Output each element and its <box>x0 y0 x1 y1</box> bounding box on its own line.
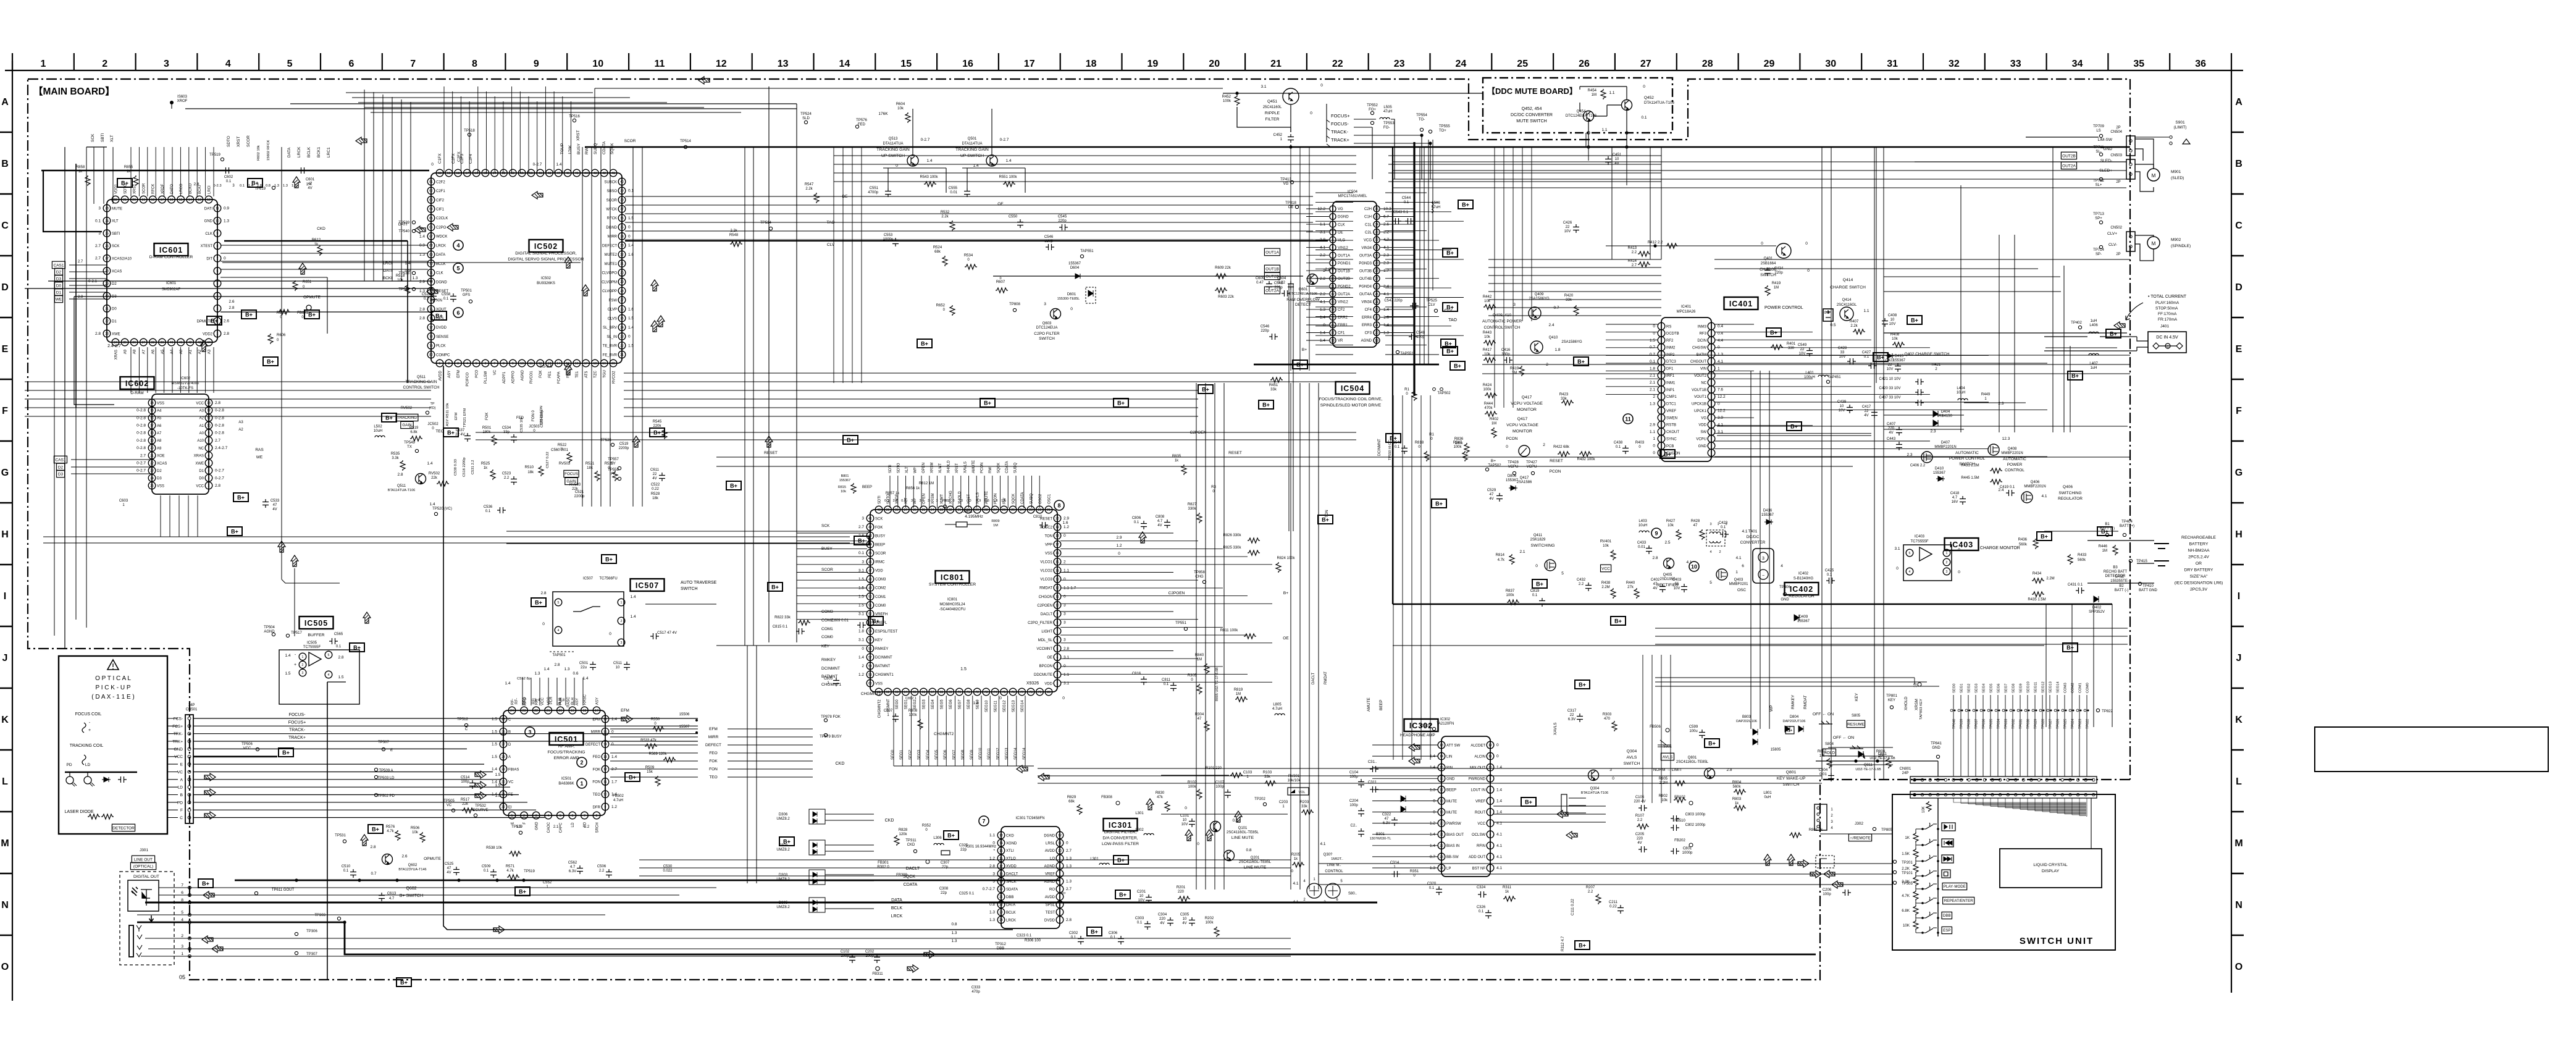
svg-text:C808: C808 <box>1156 515 1165 519</box>
system controller IC801 pin 24 <box>1018 506 1026 513</box>
svg-text:R413: R413 <box>1628 246 1637 250</box>
svg-text:FB311: FB311 <box>872 972 883 976</box>
svg-text:C1L: C1L <box>1365 223 1372 227</box>
svg-text:D601: D601 <box>1067 293 1076 297</box>
svg-text:CLVOPO: CLVOPO <box>602 272 617 276</box>
svg-text:LINE M..: LINE M.. <box>1327 864 1341 867</box>
svg-text:C815 0.1: C815 0.1 <box>773 625 788 629</box>
svg-text:2.8: 2.8 <box>1325 267 1330 272</box>
resistor <box>88 814 100 819</box>
svg-text:2.2k: 2.2k <box>941 215 949 219</box>
DAC IC301 pin 12 <box>1056 831 1064 839</box>
svg-text:1k: 1k <box>1505 890 1509 894</box>
svg-text:0-2.7: 0-2.7 <box>1000 138 1009 142</box>
svg-text:B2: B2 <box>2119 584 2124 588</box>
svg-text:MONITOR: MONITOR <box>1512 429 1532 434</box>
svg-text:EFM: EFM <box>457 370 461 378</box>
pin 2 <box>1943 558 1950 566</box>
svg-text:TP834: TP834 <box>1997 719 2001 729</box>
svg-text:B+: B+ <box>400 980 408 986</box>
svg-text:1.4: 1.4 <box>419 234 425 238</box>
svg-text:30: 30 <box>1825 59 1836 69</box>
D-RAM controller IC601 pin 20 <box>130 196 138 203</box>
wire <box>1380 293 1414 295</box>
svg-text:47uH: 47uH <box>1383 110 1392 114</box>
svg-text:CLVOPM: CLVOPM <box>602 280 617 284</box>
svg-text:1.3: 1.3 <box>1718 353 1723 357</box>
svg-text:D0: D0 <box>199 477 204 481</box>
svg-text:21: 21 <box>999 896 1003 899</box>
svg-text:DVDD: DVDD <box>1044 919 1055 922</box>
svg-text:DIGITAL FILTER,: DIGITAL FILTER, <box>1104 830 1136 835</box>
svg-text:B+: B+ <box>1614 618 1622 625</box>
svg-text:TP524: TP524 <box>800 112 812 116</box>
svg-text:R835: R835 <box>1172 455 1181 458</box>
svg-text:R827: R827 <box>1188 503 1197 507</box>
svg-text:1: 1 <box>621 601 623 605</box>
svg-text:10: 10 <box>1840 405 1844 408</box>
svg-text:B+: B+ <box>1117 400 1125 406</box>
svg-text:330k: 330k <box>1188 507 1196 511</box>
svg-text:43: 43 <box>594 172 597 175</box>
D-RAM controller IC601 pin 28 <box>103 267 111 275</box>
svg-text:1.4: 1.4 <box>427 461 432 466</box>
warning triangle <box>107 660 119 670</box>
svg-text:LS: LS <box>2096 129 2100 133</box>
svg-text:B+: B+ <box>447 430 455 436</box>
svg-text:CLV+: CLV+ <box>2107 232 2117 236</box>
wire <box>1372 744 1438 746</box>
svg-text:T401: T401 <box>1748 529 1758 534</box>
ruler row tick left <box>0 502 12 504</box>
svg-text:3: 3 <box>528 730 531 736</box>
svg-text:SLD: SLD <box>802 117 810 120</box>
svg-text:B+: B+ <box>1454 363 1461 369</box>
DSP IC502 pin 36 <box>618 214 626 222</box>
svg-text:18: 18 <box>1440 800 1443 804</box>
svg-text:CF3: CF3 <box>1365 332 1372 335</box>
svg-text:OE: OE <box>1283 636 1289 641</box>
svg-text:R1: R1 <box>1404 388 1409 392</box>
svg-text:R532: R532 <box>941 211 950 214</box>
svg-text:VDD: VDD <box>1044 682 1052 686</box>
DAC IC301 pin 16 <box>997 855 1005 862</box>
svg-text:C514: C514 <box>461 776 470 780</box>
D-RAM controller IC601 pin 2 <box>214 318 221 325</box>
svg-text:R550: R550 <box>651 718 660 721</box>
svg-text:24: 24 <box>1375 300 1378 304</box>
svg-text:9: 9 <box>217 232 219 236</box>
system controller IC801 pin 38 <box>893 506 900 513</box>
DSP IC502 pin 41 <box>610 169 617 177</box>
D-RAM controller IC601 pin 24 <box>103 217 111 225</box>
system controller IC801 pin 31 <box>956 506 963 513</box>
svg-text:0: 0 <box>999 277 1001 280</box>
svg-text:SEG10: SEG10 <box>2027 681 2031 693</box>
svg-text:XWE: XWE <box>112 332 120 336</box>
svg-text:11: 11 <box>207 416 210 420</box>
svg-text:VDD2: VDD2 <box>203 332 213 336</box>
svg-text:ROUT: ROUT <box>1475 811 1485 815</box>
DSP IC502 pin 49 <box>537 169 544 177</box>
svg-text:4.1: 4.1 <box>1735 556 1741 560</box>
ruler column tick <box>1553 53 1554 70</box>
svg-text:ASY R511 10k: ASY R511 10k <box>446 403 450 426</box>
svg-text:LRCK: LRCK <box>891 914 903 919</box>
wire <box>71 473 152 474</box>
svg-text:0.1: 0.1 <box>424 297 429 301</box>
svg-text:30: 30 <box>1375 254 1378 258</box>
svg-text:FF:170mA: FF:170mA <box>2158 312 2177 316</box>
svg-text:0.7: 0.7 <box>1650 353 1655 357</box>
wire <box>193 718 698 719</box>
svg-text:FON: FON <box>709 767 718 772</box>
svg-text:1k: 1k <box>1175 459 1179 463</box>
svg-text:0-2.8: 0-2.8 <box>215 408 224 413</box>
svg-text:3: 3 <box>1513 303 1516 307</box>
svg-text:SPINDLE/SLED MOTOR DRIVE: SPINDLE/SLED MOTOR DRIVE <box>1320 403 1382 408</box>
wire <box>1306 301 1329 302</box>
DSP IC502 pin 15 <box>564 360 571 367</box>
svg-text:A1: A1 <box>199 424 204 428</box>
DAC IC301 body <box>1001 827 1060 928</box>
svg-text:20: 20 <box>999 888 1003 891</box>
svg-text:GND: GND <box>1781 598 1789 602</box>
svg-text:0.8: 0.8 <box>266 184 271 188</box>
svg-text:B3: B3 <box>2113 566 2118 570</box>
svg-text:0.7: 0.7 <box>371 872 376 876</box>
op-amp IC601 label box <box>154 243 188 256</box>
ruler row tick right <box>2231 502 2244 504</box>
svg-text:18: 18 <box>594 362 597 366</box>
svg-text:0.1: 0.1 <box>1071 936 1076 940</box>
system controller IC801 pin 20 <box>1054 515 1061 522</box>
svg-text:D1: D1 <box>199 469 204 473</box>
svg-text:EFM: EFM <box>592 718 600 721</box>
CN501 pin <box>188 763 191 766</box>
svg-text:TC75555F: TC75555F <box>303 646 321 649</box>
svg-text:0.1: 0.1 <box>1404 201 1409 204</box>
svg-text:DC/DC: DC/DC <box>1747 535 1760 539</box>
svg-text:EI: EI <box>508 806 512 809</box>
svg-text:0: 0 <box>999 696 1002 700</box>
svg-text:C605: C605 <box>1256 277 1265 280</box>
wire <box>167 725 178 726</box>
svg-text:LRCI: LRCI <box>208 185 211 194</box>
svg-text:20: 20 <box>1209 59 1220 69</box>
svg-text:2.8: 2.8 <box>215 401 220 405</box>
svg-text:XLT: XLT <box>110 135 114 142</box>
DAC IC301 pin 18 <box>997 870 1005 878</box>
svg-text:0: 0 <box>1535 564 1538 568</box>
svg-text:10k: 10k <box>412 831 419 835</box>
svg-text:C325 0.1: C325 0.1 <box>959 892 975 896</box>
svg-text:7.6: 7.6 <box>1718 388 1723 392</box>
junction <box>522 878 525 881</box>
wire <box>193 772 493 773</box>
svg-text:FOCUS/TRACKING COIL DRIVE,: FOCUS/TRACKING COIL DRIVE, <box>1319 397 1383 402</box>
IC507 label box <box>631 579 665 591</box>
svg-text:0.9: 0.9 <box>419 243 425 248</box>
ruler column tick <box>1861 53 1862 70</box>
DSP IC502 pin 6 <box>482 360 489 367</box>
svg-text:10: 10 <box>207 424 211 428</box>
svg-text:TP410: TP410 <box>2142 584 2154 588</box>
IC504 pin 28 <box>1374 267 1380 274</box>
svg-text:RFO: RFO <box>524 697 527 705</box>
IC504 pin 8 <box>1330 260 1336 266</box>
svg-text:FOCUS: FOCUS <box>564 472 578 476</box>
svg-text:5: 5 <box>1710 581 1712 585</box>
svg-text:1.4: 1.4 <box>630 615 636 619</box>
headphone amp IC302 pin 12 <box>1487 741 1494 749</box>
svg-text:1.3: 1.3 <box>412 276 417 280</box>
svg-text:1M62T..: 1M62T.. <box>1331 857 1343 861</box>
svg-text:TP504: TP504 <box>264 626 275 629</box>
svg-text:FOCUS+: FOCUS+ <box>1331 113 1350 119</box>
svg-text:IC801: IC801 <box>941 573 964 582</box>
svg-text:2.6: 2.6 <box>401 854 407 859</box>
capacitor C501 <box>590 662 596 670</box>
svg-text:RV502: RV502 <box>401 406 413 410</box>
DSP IC502 pin 67 <box>427 233 435 240</box>
svg-text:Q402 CHARGE SWITCH: Q402 CHARGE SWITCH <box>1905 352 1950 356</box>
svg-text:Q403: Q403 <box>1734 578 1743 582</box>
svg-text:38: 38 <box>895 508 899 512</box>
DSP IC502 pin 8 <box>500 360 508 367</box>
svg-text:76: 76 <box>1011 691 1015 694</box>
svg-text:B+: B+ <box>1491 459 1496 463</box>
svg-text:2.8: 2.8 <box>229 306 234 310</box>
svg-text:24: 24 <box>105 219 109 223</box>
svg-text:1.4: 1.4 <box>492 767 497 772</box>
svg-text:0: 0 <box>628 225 631 230</box>
svg-text:1.3: 1.3 <box>292 184 296 188</box>
svg-text:2: 2 <box>580 760 583 766</box>
svg-text:C2L: C2L <box>1365 231 1372 235</box>
svg-text:12: 12 <box>1058 834 1062 838</box>
svg-text:FBIAS: FBIAS <box>508 768 519 772</box>
svg-text:C802 1000p: C802 1000p <box>1685 823 1706 827</box>
svg-text:C31..: C31.. <box>1368 760 1377 764</box>
svg-text:FO+: FO+ <box>1369 108 1376 112</box>
DSP IC502 pin 60 <box>436 169 443 177</box>
ruler column tick <box>813 53 814 70</box>
IC504 pin 2 <box>1330 214 1336 220</box>
svg-text:1.4: 1.4 <box>1320 339 1325 343</box>
svg-text:R403: R403 <box>1635 441 1645 445</box>
svg-text:2SC4116GL-TE85L: 2SC4116GL-TE85L <box>1239 860 1272 864</box>
D-RAM controller IC601 pin 42 <box>187 339 194 346</box>
DSP IC502 pin 63 <box>427 196 435 204</box>
ruler column tick <box>690 53 691 70</box>
DSP IC502 pin 72 <box>427 278 435 285</box>
svg-text:2SB1664: 2SB1664 <box>1761 262 1776 266</box>
D-RAM IC602 pin 11 <box>205 414 212 422</box>
svg-text:UPCK1B: UPCK1B <box>1692 403 1706 406</box>
svg-text:SL-: SL- <box>2096 150 2101 154</box>
svg-text:4.7uH: 4.7uH <box>613 799 623 802</box>
svg-text:X301 16.9344MHz: X301 16.9344MHz <box>965 845 996 849</box>
system controller IC801 pin 61 <box>875 688 883 696</box>
DSP IC502 pin 7 <box>491 360 498 367</box>
svg-text:1.5: 1.5 <box>495 783 500 788</box>
IC504 pin 34 <box>1374 221 1380 227</box>
svg-text:R449: R449 <box>1981 393 1991 397</box>
headphone amp IC302 pin 10 <box>1487 763 1494 771</box>
svg-text:Q511: Q511 <box>417 376 426 379</box>
svg-text:3: 3 <box>936 499 938 503</box>
power control IC401 pin <box>1658 372 1665 379</box>
wire <box>193 786 510 788</box>
junction <box>495 878 498 881</box>
wire <box>167 779 178 780</box>
svg-text:17: 17 <box>584 362 588 366</box>
net label OUT1B <box>1264 265 1280 272</box>
svg-text:56: 56 <box>474 172 478 175</box>
svg-text:12: 12 <box>1331 293 1335 297</box>
svg-text:R436: R436 <box>2018 538 2028 542</box>
DSP IC502 pin 37 <box>618 205 626 212</box>
svg-text:A: A <box>2235 97 2242 107</box>
svg-text:MMBF2201N: MMBF2201N <box>1934 445 1956 449</box>
svg-text:15: 15 <box>179 198 183 202</box>
svg-text:A: A <box>508 755 511 759</box>
J301 pin 7 <box>188 886 191 890</box>
svg-text:TRACKING COIL: TRACKING COIL <box>70 744 104 748</box>
svg-text:27: 27 <box>620 299 624 303</box>
svg-text:C560 0.01: C560 0.01 <box>551 448 568 452</box>
svg-text:1.8: 1.8 <box>1554 348 1560 352</box>
system controller IC801 pin 73 <box>983 688 990 696</box>
svg-text:C205: C205 <box>1635 833 1645 836</box>
svg-text:RMDAT: RMDAT <box>1324 671 1328 684</box>
svg-text:17: 17 <box>595 709 598 713</box>
DSP IC502 pin 61 <box>427 178 435 185</box>
svg-text:D1: D1 <box>56 290 62 295</box>
svg-text:220: 220 <box>1888 427 1895 431</box>
svg-text:55: 55 <box>484 172 487 175</box>
B+ supply <box>531 598 546 607</box>
headphone amp IC302 pin 19 <box>1438 809 1445 816</box>
svg-text:DCINMNT: DCINMNT <box>1378 439 1382 456</box>
svg-text:1.6: 1.6 <box>1001 499 1006 503</box>
D-RAM controller IC601 pin 19 <box>140 196 148 203</box>
wire <box>167 809 178 810</box>
svg-text:1.3: 1.3 <box>283 184 288 188</box>
wire <box>65 772 137 773</box>
svg-text:XROF: XROF <box>177 99 188 103</box>
ruler column tick <box>1984 53 1986 70</box>
svg-text:12: 12 <box>207 409 211 413</box>
svg-text:BCLK: BCLK <box>436 263 446 266</box>
svg-text:44: 44 <box>584 172 588 175</box>
net label OUT2B <box>1264 272 1280 280</box>
svg-text:3: 3 <box>181 944 183 949</box>
svg-text:2SD1950: 2SD1950 <box>1659 578 1676 581</box>
svg-text:41: 41 <box>611 172 615 175</box>
DSP IC502 pin 2 <box>445 360 453 367</box>
svg-text:TP307: TP307 <box>306 953 317 956</box>
D-RAM IC602 pin 23 <box>148 467 156 474</box>
svg-text:FOCUS COIL: FOCUS COIL <box>75 712 102 717</box>
svg-text:DC IN 4.5V: DC IN 4.5V <box>2156 335 2178 340</box>
svg-text:D3: D3 <box>157 477 162 481</box>
svg-text:1.7: 1.7 <box>1383 269 1389 273</box>
svg-text:3: 3 <box>164 59 169 69</box>
svg-text:S901: S901 <box>2175 120 2185 125</box>
svg-text:K: K <box>1 715 9 725</box>
svg-text:Q30?: Q30? <box>1324 853 1333 857</box>
DSP IC502 pin 55 <box>482 169 489 177</box>
RF amp IC501 pin 17 <box>593 707 600 714</box>
svg-text:R438: R438 <box>1601 581 1611 585</box>
svg-text:1M: 1M <box>1197 658 1202 662</box>
regulator IC402 label box <box>1785 583 1819 595</box>
svg-text:40: 40 <box>877 508 881 512</box>
svg-text:B+: B+ <box>282 750 290 756</box>
DAC IC301 pin 5 <box>1056 885 1064 893</box>
svg-text:0: 0 <box>1761 242 1763 246</box>
svg-text:VLCO3: VLCO3 <box>1040 578 1052 582</box>
svg-text:A: A <box>180 778 183 782</box>
ruler row tick left <box>0 564 12 566</box>
system controller IC801 pin 50 <box>866 593 874 600</box>
svg-text:F: F <box>2236 406 2242 416</box>
svg-text:10k: 10k <box>1668 524 1674 528</box>
svg-text:C443: C443 <box>1887 437 1896 441</box>
svg-text:100p: 100p <box>865 954 874 958</box>
svg-text:1000p: 1000p <box>883 238 894 242</box>
svg-text:79: 79 <box>1038 691 1042 694</box>
svg-text:2: 2 <box>302 663 304 667</box>
svg-text:0: 0 <box>1433 799 1435 804</box>
svg-text:TRACK-: TRACK- <box>289 728 306 733</box>
svg-text:VG: VG <box>1701 416 1706 420</box>
svg-text:41: 41 <box>868 517 872 521</box>
system controller IC801 pin 63 <box>893 688 900 696</box>
svg-text:NC: NC <box>198 447 204 450</box>
svg-text:COM0: COM0 <box>821 635 833 639</box>
svg-text:Q406: Q406 <box>2063 485 2073 489</box>
svg-text:C511: C511 <box>613 662 623 665</box>
svg-text:R521: R521 <box>585 462 595 466</box>
svg-text:0-2.8: 0-2.8 <box>215 431 224 435</box>
headphone amp IC302 pin 22 <box>1438 842 1445 849</box>
svg-text:LRCK: LRCK <box>436 245 446 248</box>
svg-text:C534: C534 <box>502 426 511 430</box>
IC504 pin 22 <box>1374 314 1380 320</box>
svg-text:B+: B+ <box>1536 581 1543 587</box>
svg-text:SYSTEM CONTROLLER: SYSTEM CONTROLLER <box>929 583 976 587</box>
DSP IC502 pin 16 <box>573 360 581 367</box>
wire <box>1380 285 1414 287</box>
svg-text:4: 4 <box>1781 564 1783 568</box>
svg-text:0-2.1: 0-2.1 <box>88 280 97 284</box>
svg-text:FE1: FE1 <box>548 371 552 378</box>
svg-text:OE: OE <box>997 202 1004 206</box>
svg-text:155367: 155367 <box>1506 479 1519 482</box>
svg-text:L: L <box>2 776 8 787</box>
svg-text:1.4: 1.4 <box>1320 331 1325 335</box>
svg-text:R302 0: R302 0 <box>877 865 889 869</box>
svg-text:C807: C807 <box>884 709 893 713</box>
svg-text:PCO: PCO <box>476 369 479 377</box>
svg-text:R812 1M: R812 1M <box>919 482 934 486</box>
svg-text:2.7: 2.7 <box>1066 887 1072 891</box>
CN501 pin <box>188 786 191 789</box>
wire <box>1306 224 1329 225</box>
